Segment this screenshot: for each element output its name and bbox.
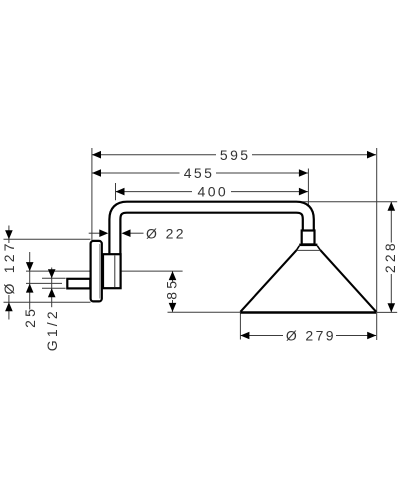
svg-text:595: 595	[220, 147, 251, 163]
svg-text:85: 85	[164, 278, 180, 300]
svg-text:Ø 279: Ø 279	[286, 328, 336, 344]
svg-text:25: 25	[22, 306, 38, 328]
svg-text:G1/2: G1/2	[44, 308, 60, 351]
svg-text:Ø 127: Ø 127	[1, 240, 17, 294]
svg-text:455: 455	[184, 165, 215, 181]
svg-text:228: 228	[382, 240, 398, 273]
svg-text:Ø 22: Ø 22	[146, 225, 186, 241]
svg-text:400: 400	[198, 184, 229, 200]
